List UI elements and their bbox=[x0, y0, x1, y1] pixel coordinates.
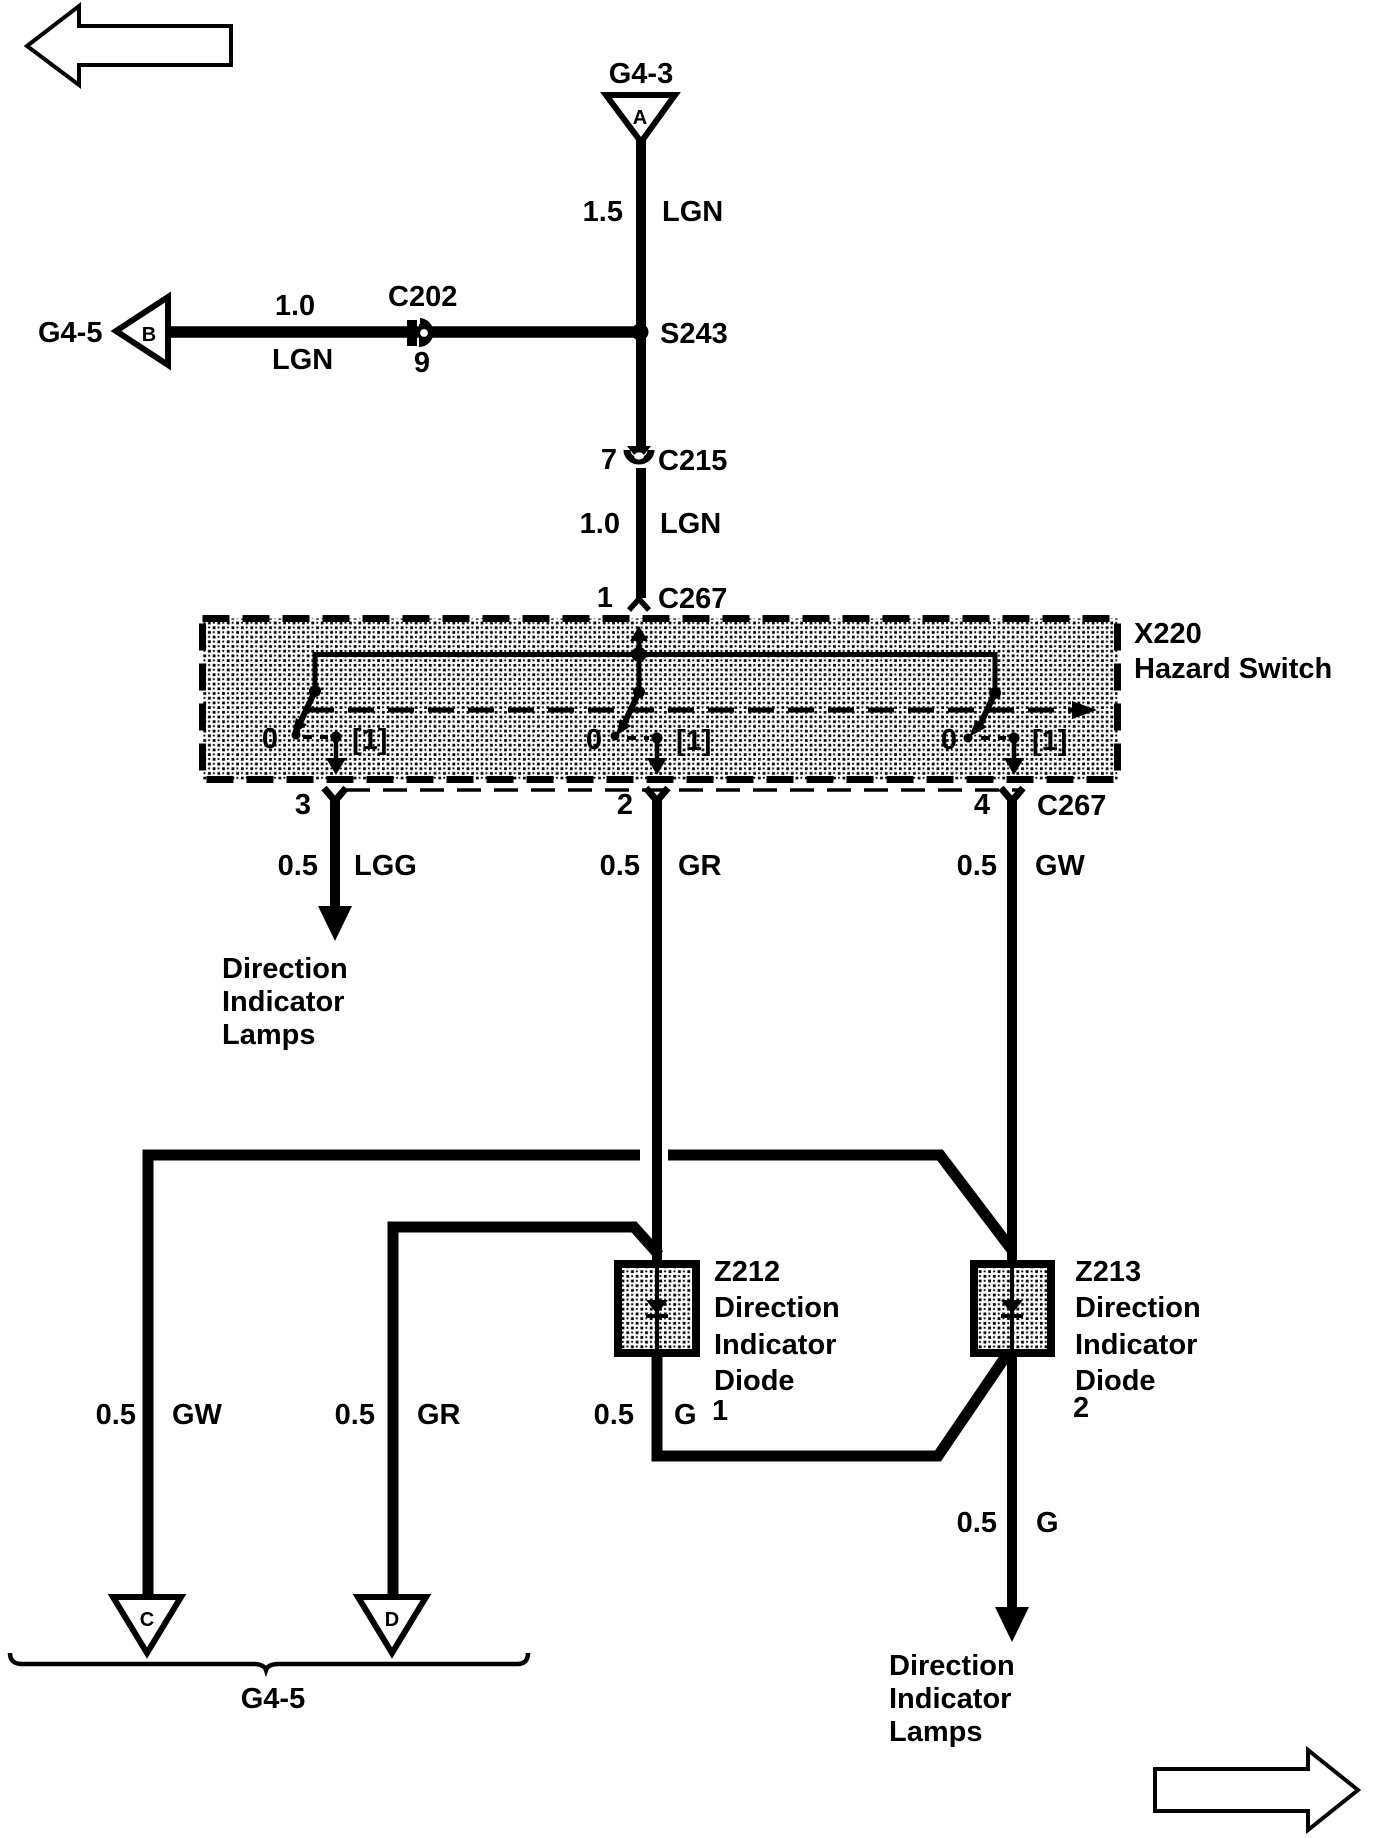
connector C267 dashed line bbox=[346, 788, 1020, 792]
svg-text:2: 2 bbox=[1073, 1392, 1089, 1424]
svg-text:GR: GR bbox=[417, 1399, 461, 1431]
pin 3 of C267 bbox=[324, 788, 346, 801]
splice S243 bbox=[632, 324, 649, 341]
svg-text:0: 0 bbox=[262, 723, 278, 755]
svg-text:C267: C267 bbox=[658, 583, 727, 615]
svg-text:9: 9 bbox=[414, 347, 430, 379]
svg-text:Indicator: Indicator bbox=[1075, 1329, 1197, 1361]
diode Z212 box bbox=[618, 1264, 696, 1353]
switch 2 (pin 2) bbox=[611, 686, 668, 775]
svg-text:0: 0 bbox=[941, 724, 957, 756]
connector triangle D bbox=[358, 1597, 426, 1653]
pin 4 of C267 bbox=[1001, 788, 1023, 801]
label Z213 Direction Indicator Diode 2 bbox=[1073, 1256, 1201, 1424]
svg-text:0.5: 0.5 bbox=[96, 1399, 136, 1431]
svg-text:G4-5: G4-5 bbox=[241, 1683, 305, 1715]
svg-text:[1]: [1] bbox=[676, 725, 711, 757]
svg-text:0: 0 bbox=[586, 724, 602, 756]
brace G4-5 bbox=[10, 1653, 528, 1670]
wire: C215 to pin 1 bbox=[636, 468, 646, 598]
switch 3 (pin 4) bbox=[964, 687, 1025, 775]
label Z212 Direction Indicator Diode 1 bbox=[712, 1256, 840, 1427]
wire: branch to connector C (left) bbox=[148, 1155, 640, 1597]
svg-text:G: G bbox=[674, 1399, 697, 1431]
svg-text:[1]: [1] bbox=[352, 724, 387, 756]
svg-text:Z212: Z212 bbox=[714, 1256, 780, 1288]
svg-text:2: 2 bbox=[617, 789, 633, 821]
svg-text:B: B bbox=[142, 324, 156, 346]
svg-text:G: G bbox=[1036, 1507, 1059, 1539]
wire: S243 to C215 bbox=[636, 332, 646, 450]
svg-text:C: C bbox=[140, 1609, 154, 1631]
svg-text:Z213: Z213 bbox=[1075, 1256, 1141, 1288]
wire: triangle A to S243 bbox=[636, 140, 646, 332]
junction node bbox=[632, 647, 647, 662]
off-page arrow bottom-right bbox=[1155, 1750, 1358, 1830]
svg-text:7: 7 bbox=[601, 444, 617, 476]
svg-text:0.5: 0.5 bbox=[594, 1399, 634, 1431]
wire continues after crossover bbox=[668, 1155, 1012, 1250]
svg-text:LGG: LGG bbox=[354, 850, 417, 882]
internal bus wire bbox=[315, 655, 995, 694]
svg-text:A: A bbox=[633, 107, 647, 129]
inline connector C215 bbox=[627, 446, 651, 461]
text Direction Indicator Lamps (left) bbox=[222, 953, 348, 1051]
pin 1 of C267 bbox=[629, 599, 649, 610]
text Direction Indicator Lamps (bottom) bbox=[889, 1650, 1015, 1748]
svg-text:Direction: Direction bbox=[222, 953, 348, 985]
entry arrow pin 1 bbox=[630, 626, 648, 656]
wire junction to middle pivot bbox=[637, 655, 642, 693]
svg-text:C267: C267 bbox=[1037, 790, 1106, 822]
svg-text:Lamps: Lamps bbox=[222, 1019, 315, 1051]
wire: pin 4 down to Z213 bbox=[1007, 798, 1017, 1262]
svg-text:Direction: Direction bbox=[889, 1650, 1015, 1682]
svg-text:Lamps: Lamps bbox=[889, 1716, 982, 1748]
wire: pin 2 down to Z212 bbox=[652, 798, 662, 1262]
inline connector C202 bbox=[407, 316, 434, 347]
svg-text:X220: X220 bbox=[1134, 618, 1202, 650]
connector triangle C bbox=[113, 1597, 181, 1653]
svg-text:G4-5: G4-5 bbox=[38, 317, 102, 349]
svg-text:Direction: Direction bbox=[1075, 1292, 1201, 1324]
svg-text:Hazard Switch: Hazard Switch bbox=[1134, 653, 1332, 685]
svg-text:Direction: Direction bbox=[714, 1292, 840, 1324]
svg-text:Indicator: Indicator bbox=[714, 1329, 836, 1361]
svg-text:1.5: 1.5 bbox=[583, 196, 623, 228]
svg-text:1: 1 bbox=[597, 582, 613, 614]
wire: Z212 output to Z213 output bbox=[657, 1355, 1006, 1456]
off-page arrow top-left bbox=[27, 6, 231, 85]
wire: pin 3 down bbox=[330, 798, 340, 908]
arrow to direction indicator lamps bbox=[318, 906, 352, 941]
switch 1 (pin 3) bbox=[292, 685, 347, 775]
svg-text:1.0: 1.0 bbox=[275, 290, 315, 322]
svg-text:C215: C215 bbox=[658, 445, 727, 477]
svg-text:GW: GW bbox=[172, 1399, 223, 1431]
svg-text:1.0: 1.0 bbox=[580, 508, 620, 540]
svg-text:G4-3: G4-3 bbox=[609, 58, 673, 90]
wire: branch to connector D bbox=[393, 1227, 659, 1597]
connector triangle A bbox=[606, 95, 675, 142]
svg-text:1: 1 bbox=[712, 1395, 728, 1427]
svg-text:D: D bbox=[385, 1609, 399, 1631]
svg-text:LGN: LGN bbox=[660, 508, 721, 540]
svg-text:Indicator: Indicator bbox=[222, 986, 344, 1018]
svg-text:0.5: 0.5 bbox=[335, 1399, 375, 1431]
svg-text:Indicator: Indicator bbox=[889, 1683, 1011, 1715]
svg-text:[1]: [1] bbox=[1032, 725, 1067, 757]
svg-text:0.5: 0.5 bbox=[957, 850, 997, 882]
svg-text:0.5: 0.5 bbox=[957, 1507, 997, 1539]
svg-text:LGN: LGN bbox=[272, 344, 333, 376]
svg-text:3: 3 bbox=[295, 789, 311, 821]
wire: Z213 output down bbox=[1007, 1355, 1017, 1610]
svg-text:4: 4 bbox=[974, 789, 990, 821]
switch gang dashed link bbox=[308, 701, 1097, 719]
svg-text:Diode: Diode bbox=[714, 1365, 795, 1397]
arrow to direction indicator lamps (bottom) bbox=[995, 1607, 1029, 1642]
svg-text:S243: S243 bbox=[660, 318, 728, 350]
diode Z213 box bbox=[974, 1264, 1051, 1353]
wire: triangle B to S243 bbox=[166, 326, 641, 338]
svg-text:GW: GW bbox=[1035, 850, 1086, 882]
pin 2 of C267 bbox=[646, 788, 668, 801]
svg-text:0.5: 0.5 bbox=[278, 850, 318, 882]
connector triangle B bbox=[116, 297, 168, 365]
hazard switch X220 box bbox=[203, 619, 1118, 780]
svg-text:LGN: LGN bbox=[662, 196, 723, 228]
svg-text:0.5: 0.5 bbox=[600, 850, 640, 882]
svg-text:C202: C202 bbox=[388, 281, 457, 313]
svg-text:GR: GR bbox=[678, 850, 722, 882]
